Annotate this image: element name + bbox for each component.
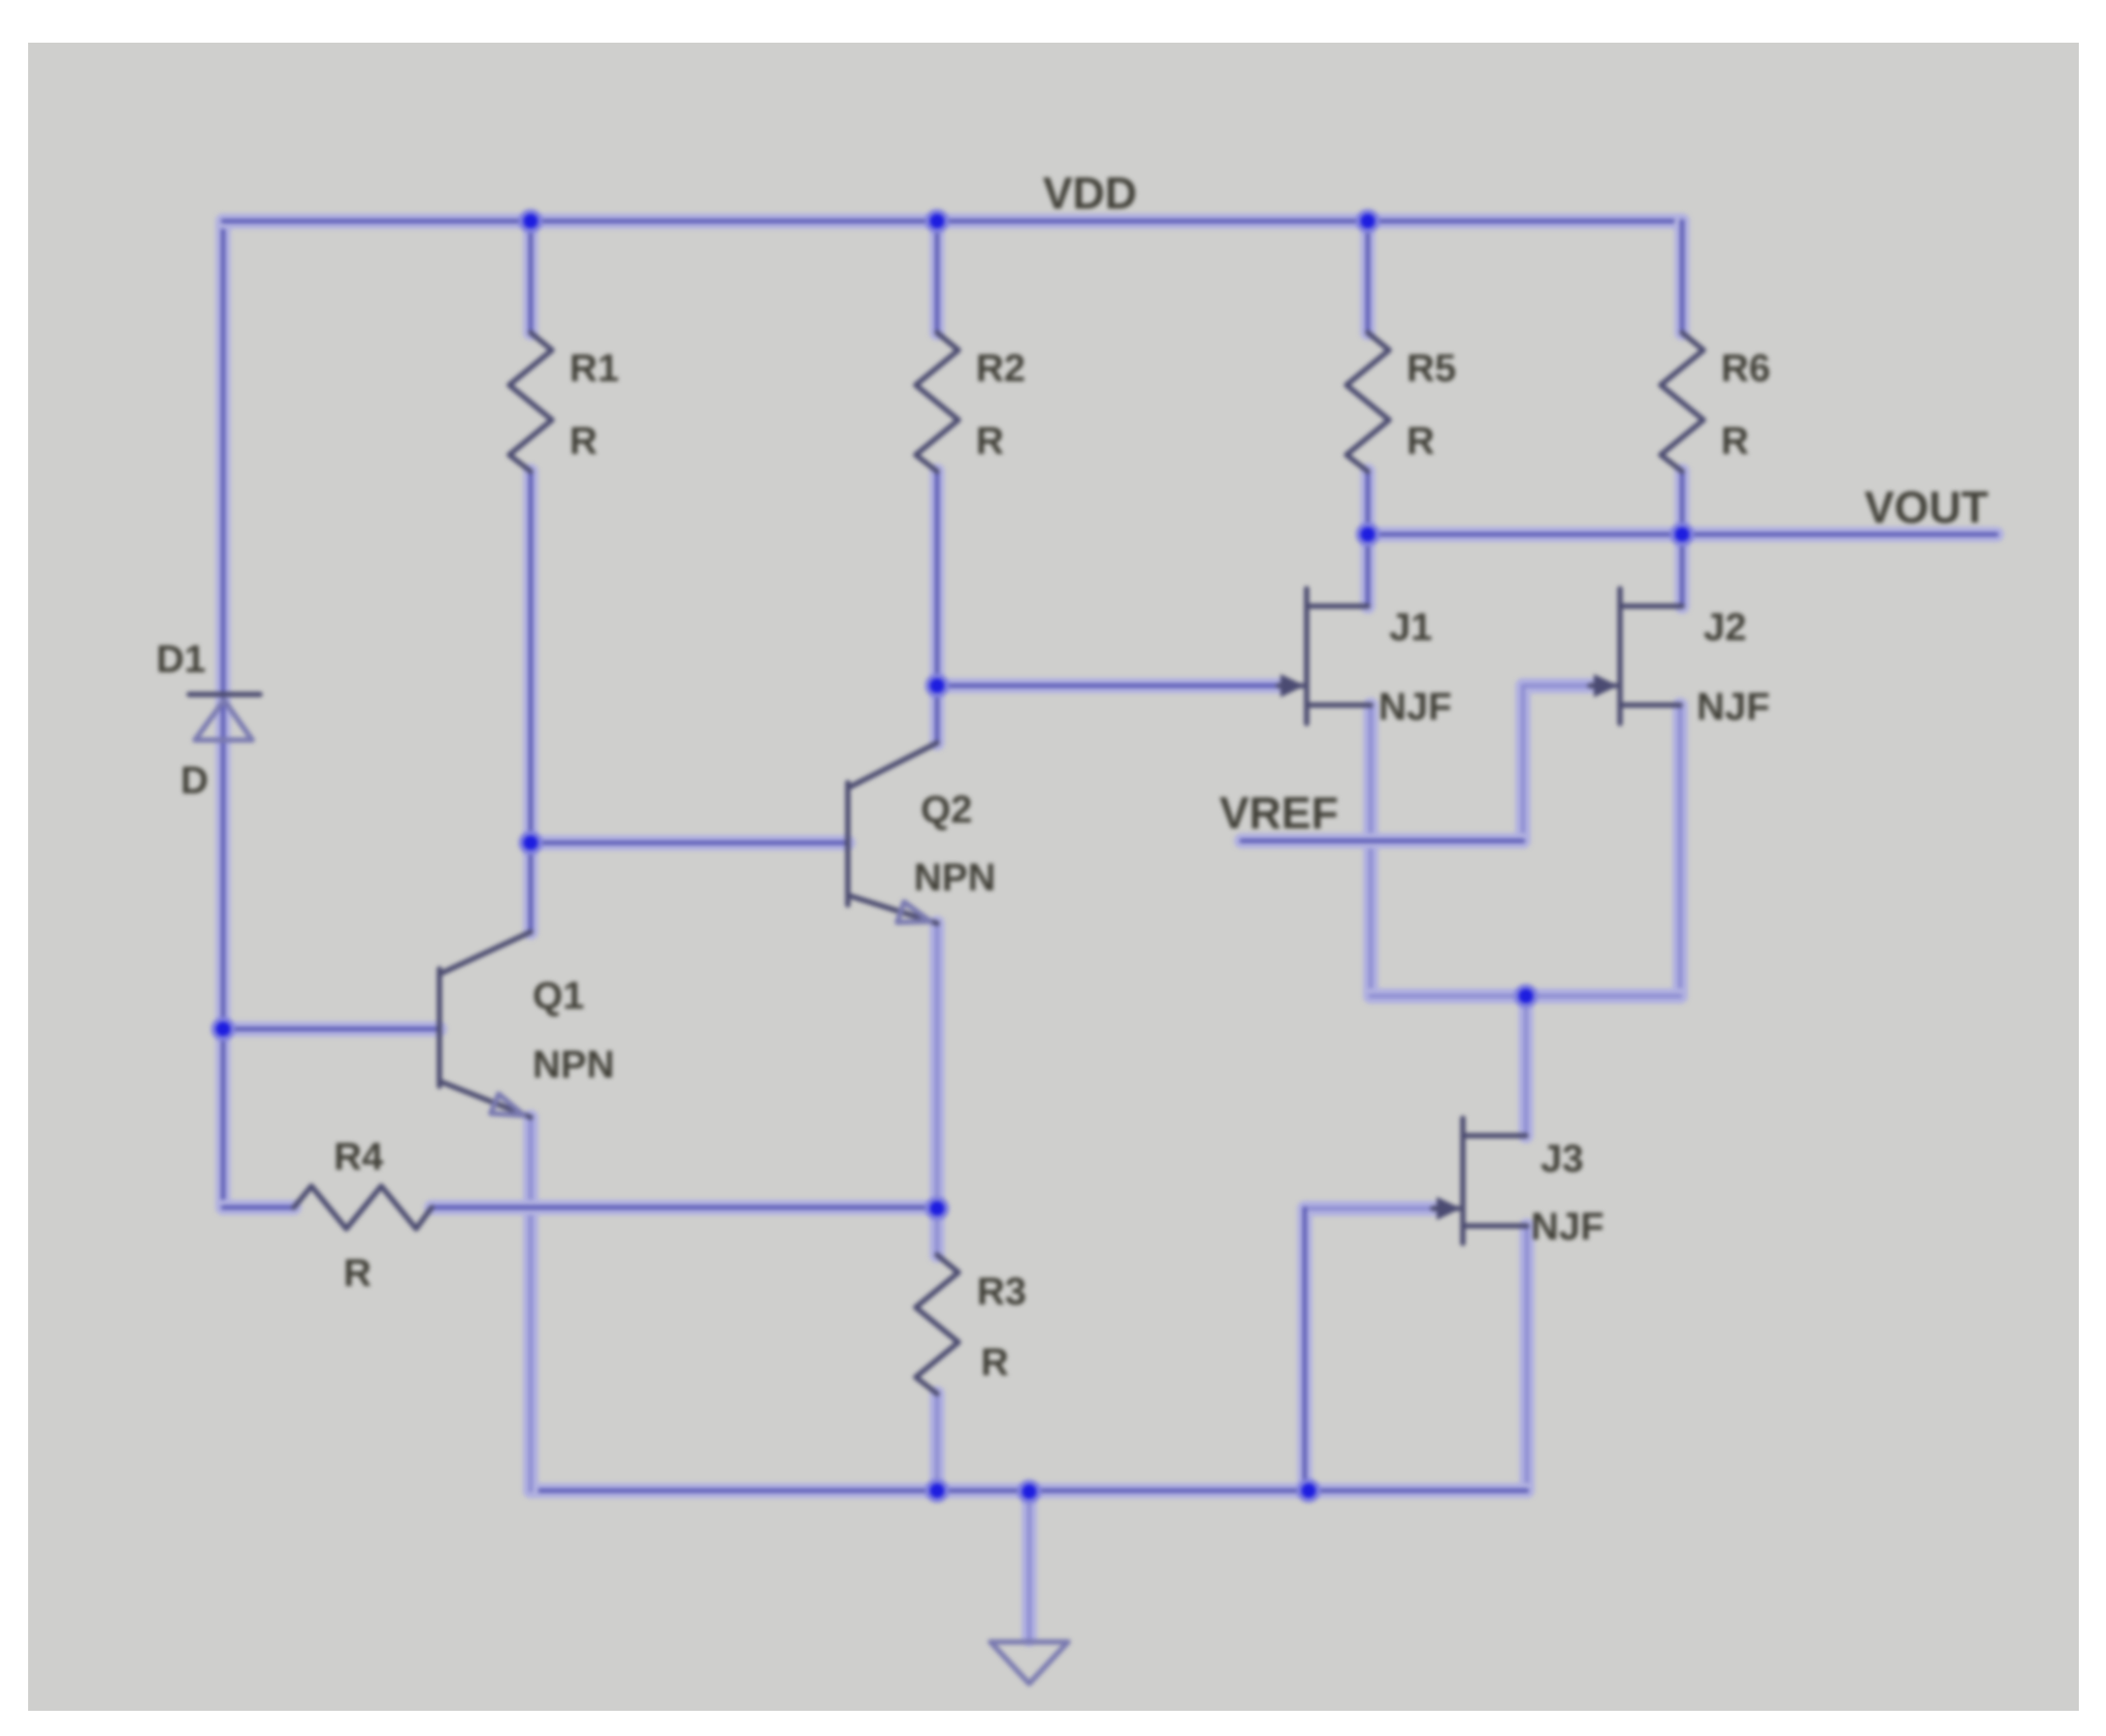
svg-text:R6: R6 xyxy=(1721,347,1770,390)
wire J3 drain xyxy=(1518,996,1534,1136)
node R2/J1 gate junction xyxy=(927,676,947,695)
wire R2 bottom lead xyxy=(929,471,945,686)
wire VDD left bus xyxy=(215,221,231,1207)
wire R2 top lead xyxy=(929,221,945,333)
wire bottom bus xyxy=(531,1483,1527,1498)
wire R1 top lead xyxy=(523,221,538,333)
node VOUT junction R5/J1 xyxy=(1358,525,1377,544)
svg-text:Q1: Q1 xyxy=(533,975,584,1017)
svg-text:VOUT: VOUT xyxy=(1864,482,1989,532)
node ground tap junction xyxy=(1020,1482,1039,1501)
transistor J1 xyxy=(1279,589,1452,728)
svg-text:NJF: NJF xyxy=(1531,1206,1604,1248)
wire Q1 emitter drop xyxy=(523,1117,538,1491)
diode D1 xyxy=(156,638,260,802)
svg-text:R3: R3 xyxy=(977,1270,1026,1313)
wire Q2 emitter drop xyxy=(929,923,945,1208)
resistor R5 xyxy=(1346,333,1456,471)
wire J3 gate loop xyxy=(1305,1208,1433,1491)
transistor Q2 xyxy=(848,743,995,923)
resistor R3 xyxy=(916,1255,1026,1394)
wire Q2 collector xyxy=(929,686,945,743)
wire R4 right lead xyxy=(432,1200,937,1215)
wire VREF xyxy=(1242,833,1523,849)
wire R3 bottom lead xyxy=(929,1394,945,1491)
svg-text:R: R xyxy=(976,420,1004,463)
svg-text:NJF: NJF xyxy=(1697,686,1770,728)
wire R3 top lead xyxy=(929,1208,945,1255)
wire J2 gate riser xyxy=(1523,686,1590,841)
wire R5 bottom lead xyxy=(1360,471,1376,534)
node J1-J2 source / J3 drain junction xyxy=(1516,986,1536,1006)
node Q2 emitter/R3/R4 junction xyxy=(927,1199,947,1218)
node D1/Q1 base junction xyxy=(213,1019,233,1039)
wire Q2 base from Q1 collector xyxy=(531,835,848,851)
node VDD junction R2 xyxy=(927,211,947,231)
svg-text:R: R xyxy=(569,420,598,463)
wire J1 gate from R2 node xyxy=(937,678,1279,693)
svg-text:NPN: NPN xyxy=(533,1044,614,1086)
transistor J3 xyxy=(1433,1118,1604,1248)
wire Q1 collector xyxy=(523,843,538,932)
wire R1 bottom lead to Q1 collector node xyxy=(523,471,538,843)
transistor Q1 xyxy=(439,932,614,1117)
svg-text:R5: R5 xyxy=(1407,347,1456,390)
svg-text:J1: J1 xyxy=(1389,606,1433,649)
wire R6 bottom lead xyxy=(1674,471,1690,534)
transistor J2 xyxy=(1590,589,1770,728)
svg-text:R4: R4 xyxy=(334,1136,384,1178)
node R3 bottom bus junction xyxy=(927,1481,947,1500)
ground xyxy=(990,1642,1068,1684)
svg-text:NJF: NJF xyxy=(1378,686,1452,728)
svg-text:R: R xyxy=(343,1252,372,1295)
node VOUT junction R6/J2 xyxy=(1672,525,1692,544)
svg-text:D: D xyxy=(180,759,209,802)
wire Q1 base xyxy=(223,1021,439,1037)
wire ground stem xyxy=(1021,1492,1037,1639)
node VDD junction R5 xyxy=(1358,211,1377,231)
node VDD junction R1 xyxy=(521,211,540,231)
svg-text:VREF: VREF xyxy=(1219,788,1339,838)
svg-text:R1: R1 xyxy=(569,347,619,390)
svg-text:D1: D1 xyxy=(156,638,206,681)
svg-text:Q2: Q2 xyxy=(921,788,972,831)
resistor R4 xyxy=(294,1136,432,1295)
wire VOUT output xyxy=(1368,527,1996,542)
svg-text:VDD: VDD xyxy=(1043,168,1137,218)
wire R6 top lead xyxy=(1674,221,1690,333)
svg-text:R: R xyxy=(981,1341,1009,1384)
wire J2 source xyxy=(1672,705,1688,996)
wire J3 source drop xyxy=(1519,1226,1535,1491)
node Q1 collector junction xyxy=(521,833,540,852)
svg-text:NPN: NPN xyxy=(914,856,995,899)
svg-text:J2: J2 xyxy=(1703,606,1747,649)
svg-text:J3: J3 xyxy=(1540,1138,1584,1180)
wire R5 top lead xyxy=(1360,221,1376,333)
wire J2 drain xyxy=(1674,534,1690,606)
wire R4 left lead xyxy=(223,1200,294,1215)
resistor R2 xyxy=(916,333,1025,471)
wire J1 source xyxy=(1363,705,1378,996)
resistor R1 xyxy=(509,333,619,471)
node J3 gate bus junction xyxy=(1299,1481,1318,1500)
wire J1-J2 source bus xyxy=(1371,988,1680,1004)
svg-text:R: R xyxy=(1407,420,1435,463)
svg-text:R2: R2 xyxy=(976,347,1025,390)
wire J1 drain xyxy=(1360,534,1376,606)
wire VDD top rail xyxy=(223,213,1682,229)
resistor R6 xyxy=(1661,333,1770,471)
svg-text:R: R xyxy=(1721,420,1749,463)
